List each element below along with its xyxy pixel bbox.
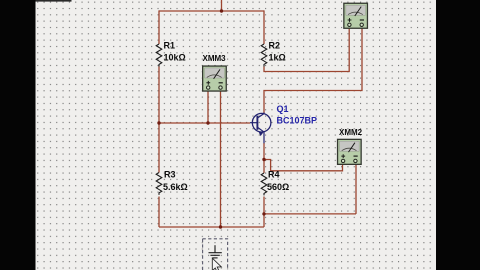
wire R1 bottom to base junction — [158, 67, 160, 124]
svg-text:5.6kΩ: 5.6kΩ — [163, 182, 188, 192]
wire XMM2 right pin drop — [355, 163, 357, 214]
junction dot emitter node — [262, 158, 265, 161]
svg-text:XMM3: XMM3 — [203, 54, 227, 63]
svg-text:BC107BP: BC107BP — [277, 116, 318, 126]
resistor R3 — [156, 173, 162, 195]
wire R3 bottom to bus — [158, 197, 160, 228]
junction dot XMM3 left pin — [206, 121, 209, 124]
svg-text:XMM2: XMM2 — [339, 128, 363, 137]
wire top rail — [159, 10, 264, 12]
resistor R1 — [156, 44, 162, 67]
wire base rail horizontal — [159, 122, 250, 124]
svg-text:Q1: Q1 — [277, 104, 289, 114]
wire top meter right pin to collector — [264, 28, 362, 114]
svg-text:1kΩ: 1kΩ — [269, 53, 286, 63]
junction dot base-rail left — [157, 121, 160, 124]
junction dot bottom bus — [219, 225, 222, 228]
svg-text:R2: R2 — [269, 41, 281, 51]
multimeter XMM3 — [203, 66, 227, 91]
transistor Q1 — [250, 113, 271, 144]
svg-text:10kΩ: 10kΩ — [164, 53, 186, 63]
wire bottom bus — [159, 226, 264, 228]
wire top feed vertical — [221, 0, 223, 11]
wire R1 top lead — [158, 10, 160, 44]
svg-text:560Ω: 560Ω — [267, 182, 289, 192]
svg-text:R4: R4 — [268, 170, 280, 180]
wire XMM3 left pin drop — [207, 90, 209, 124]
multimeter XMM1 (top right) — [344, 3, 368, 28]
ground — [209, 245, 222, 258]
wire R4 bottom through junction to bus — [263, 197, 265, 228]
wire R4 bottom rail to XMM2 — [264, 213, 356, 215]
multimeter XMM2 — [338, 139, 362, 164]
svg-text:R3: R3 — [164, 170, 176, 180]
mouse cursor — [212, 258, 221, 270]
wire R2 top lead — [263, 10, 265, 44]
wire emitter junction to R4 top — [263, 160, 265, 174]
svg-text:R1: R1 — [164, 41, 176, 51]
wire XMM3 right pin drop to bottom bus — [220, 90, 222, 228]
junction dot R4/XMM2 node — [262, 212, 265, 215]
resistor R4 — [261, 173, 267, 195]
wire emitter red segment — [263, 143, 265, 160]
wire emitter junction to XMM2 left pin — [264, 160, 343, 171]
junction dot top feed — [220, 9, 223, 12]
resistor R2 — [261, 44, 267, 67]
selection dashed box — [203, 239, 228, 270]
wire base junction down to R3 — [158, 123, 160, 173]
wire R2 bottom to top meter left pin — [264, 28, 349, 72]
